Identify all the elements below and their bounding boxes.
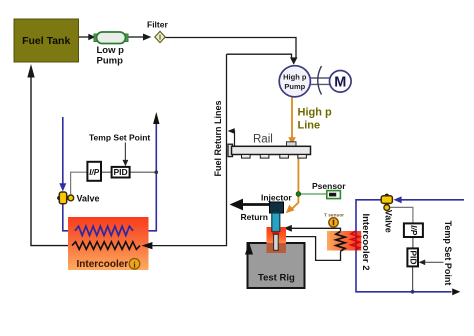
signal temp set point to PID bbox=[123, 143, 129, 167]
svg-text:I/P: I/P bbox=[89, 168, 99, 177]
intercooler 2 bbox=[327, 213, 371, 270]
wire filter to high pressure pump inlet bbox=[165, 38, 296, 59]
svg-text:Line: Line bbox=[298, 120, 321, 132]
fuel tank bbox=[14, 19, 79, 62]
svg-text:Test Rig: Test Rig bbox=[258, 273, 295, 284]
wire rail return branch bbox=[228, 128, 235, 146]
PID controller bbox=[112, 167, 130, 178]
coolant outlet line upward bbox=[133, 112, 160, 231]
wire fuel return lines vertical trunk bbox=[142, 54, 227, 249]
wire tank to low pressure pump bbox=[79, 34, 96, 40]
intercooler 2 coolant coil bbox=[351, 231, 360, 250]
valve 2 bbox=[381, 194, 393, 233]
label temp set point 2 bbox=[443, 221, 453, 286]
coolant line valve to intercooler coil bbox=[63, 204, 75, 231]
filter bbox=[147, 20, 168, 43]
signal temp set point 2 to PID 2 bbox=[419, 260, 444, 266]
motor shaft coupling bbox=[310, 66, 329, 95]
low pressure pump bbox=[94, 32, 128, 67]
svg-text:Valve: Valve bbox=[77, 194, 100, 204]
injector heat zone bbox=[267, 227, 287, 253]
high pressure line rail to injector bbox=[286, 158, 299, 213]
pressure sensor tap line bbox=[298, 193, 326, 195]
pressure sensor bbox=[312, 181, 346, 199]
svg-text:Filter: Filter bbox=[147, 20, 168, 30]
signal valve 2 to IP 2 bbox=[390, 207, 413, 223]
svg-text:Psensor: Psensor bbox=[312, 181, 346, 191]
wire fuel return lines to high pressure pump inlet bbox=[227, 54, 298, 65]
svg-text:Pump: Pump bbox=[97, 56, 124, 67]
intercooler fuel coil over box bbox=[72, 242, 152, 250]
wire injector return bbox=[230, 199, 271, 211]
intercooler info icon bbox=[129, 259, 140, 270]
signal IP 2 to PID 2 bbox=[412, 237, 414, 249]
PID controller 2 bbox=[407, 248, 418, 266]
IP converter 2 bbox=[404, 223, 423, 237]
svg-text:Low p: Low p bbox=[97, 45, 125, 56]
svg-text:High p: High p bbox=[283, 73, 307, 82]
intercooler coolant coil zigzag bbox=[75, 226, 133, 235]
test rig bbox=[245, 242, 305, 288]
svg-text:Intercooler: Intercooler bbox=[77, 259, 129, 270]
intercooler 2 fuel coil bbox=[336, 231, 345, 251]
svg-text:Temp Set Point: Temp Set Point bbox=[443, 221, 453, 286]
intercooler bbox=[68, 217, 149, 270]
motor M bbox=[330, 71, 352, 93]
coolant inlet line to valve 2 bbox=[394, 196, 465, 203]
wire low pressure pump to filter bbox=[129, 34, 152, 41]
intercooler fuel coil zigzag bbox=[72, 242, 140, 250]
wire intercooler outlet to fuel tank bbox=[27, 64, 72, 246]
svg-text:Return: Return bbox=[241, 212, 268, 222]
signal PID to coolant line bbox=[130, 170, 159, 174]
svg-text:Intercooler 2: Intercooler 2 bbox=[360, 213, 371, 270]
label return bbox=[241, 212, 268, 222]
svg-text:I/P: I/P bbox=[409, 225, 418, 235]
temperature sensor 2 bbox=[324, 213, 344, 229]
wire intercooler 2 to injector tip bbox=[284, 225, 341, 232]
signal IP to valve bbox=[71, 172, 88, 194]
signal PID 2 to coolant line bbox=[411, 266, 415, 293]
IP converter bbox=[87, 162, 101, 181]
svg-text:High p: High p bbox=[298, 107, 332, 119]
injector bbox=[261, 193, 292, 251]
svg-text:M: M bbox=[334, 74, 346, 90]
coolant inlet line to valve bbox=[59, 117, 66, 192]
high pressure line pump to rail bbox=[288, 97, 296, 145]
rail inlet connector bbox=[287, 142, 297, 147]
svg-text:Rail: Rail bbox=[253, 134, 273, 146]
svg-text:Fuel Tank: Fuel Tank bbox=[22, 35, 70, 47]
label temp set point bbox=[89, 133, 150, 143]
svg-text:Fuel Return Lines: Fuel Return Lines bbox=[213, 100, 223, 176]
node pressure tap bbox=[296, 192, 301, 197]
valve bbox=[57, 192, 99, 204]
svg-text:PID: PID bbox=[409, 250, 419, 264]
coolant line valve 2 through intercooler 2 to outlet bbox=[356, 200, 460, 295]
intercooler coolant coil over box bbox=[75, 226, 133, 235]
rail bbox=[228, 134, 311, 159]
wire injector tip to intercooler 2 bbox=[285, 237, 340, 261]
high pressure pump bbox=[279, 66, 310, 97]
svg-text:Injector: Injector bbox=[261, 193, 292, 203]
svg-text:Valve: Valve bbox=[384, 210, 394, 233]
signal PID to IP bbox=[101, 171, 112, 173]
svg-text:Pump: Pump bbox=[284, 82, 305, 91]
svg-text:PID: PID bbox=[114, 167, 128, 177]
intercooler 2 coolant line through box bbox=[355, 231, 357, 251]
label high p line bbox=[298, 107, 332, 132]
label fuel return lines bbox=[213, 100, 223, 176]
svg-text:Temp Set Point: Temp Set Point bbox=[89, 133, 150, 143]
